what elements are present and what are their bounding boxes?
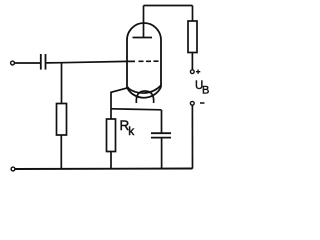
ground rail: [15, 168, 193, 171]
wire Ck to ground rail: [161, 138, 163, 169]
wire C1 to grid: [46, 61, 127, 63]
capacitor Ck bottom plate: [151, 137, 171, 139]
ground terminal: [11, 167, 15, 171]
plus sign: [196, 70, 200, 74]
input terminal: [11, 61, 15, 65]
anode resistor Ra: [188, 21, 197, 53]
capacitor C1 left plate: [40, 54, 42, 70]
wire junction down to grid resistor: [61, 63, 63, 104]
tube V1 grid dashed line: [127, 60, 159, 62]
tube V1 cathode arc: [128, 85, 162, 93]
cathode lead: [111, 88, 129, 120]
tube V1 heater: [136, 91, 153, 103]
minus sign: [200, 102, 205, 104]
wire input to C1: [15, 62, 40, 64]
wire Rk to ground rail: [110, 152, 112, 170]
tube V1 anode lead: [143, 6, 145, 38]
wire minus terminal to ground rail: [191, 105, 193, 168]
svg-text:k: k: [128, 124, 135, 138]
wire node to Ck top plate: [161, 110, 163, 133]
wire R1 to ground rail: [60, 135, 62, 169]
capacitor C1 right plate: [45, 54, 47, 70]
wire down to anode resistor Ra: [192, 6, 194, 22]
capacitor Ck top plate: [151, 132, 171, 134]
wire anode to Ra: [144, 5, 193, 7]
tube V1 envelope: [127, 23, 161, 98]
minus terminal: [190, 101, 194, 105]
plus terminal: [190, 70, 194, 74]
tube V1 anode bar: [133, 37, 153, 39]
wire Ra to plus terminal: [191, 53, 193, 70]
cathode node wire to Ck: [111, 109, 161, 110]
grid resistor R1: [57, 104, 67, 136]
svg-text:B: B: [202, 85, 209, 97]
cathode resistor Rk: [107, 119, 116, 152]
